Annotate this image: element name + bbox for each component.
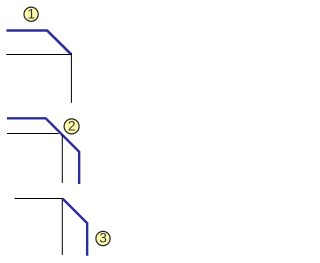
svg-text:3: 3 (99, 231, 107, 246)
wire: fig3 black vertical line (61, 198, 63, 255)
wire: fig3 blue chamfer polyline (63, 199, 88, 256)
wire: fig2 blue chamfer polyline (7, 118, 79, 184)
node 3: numbered callout circle 3 (96, 231, 110, 246)
wire: fig1 black horizontal line (6, 54, 72, 56)
node 2: numbered callout circle 2 (64, 118, 79, 134)
wire: fig2 black horizontal line (7, 133, 59, 135)
wire: fig2 black vertical line (61, 135, 63, 183)
svg-text:2: 2 (68, 118, 76, 133)
svg-text:1: 1 (27, 6, 35, 21)
wire: fig3 black horizontal line (15, 198, 63, 200)
node 1: numbered callout circle 1 (24, 6, 38, 21)
wire: fig1 blue chamfer polyline (7, 31, 72, 55)
wire: fig1 black vertical line (70, 53, 72, 103)
